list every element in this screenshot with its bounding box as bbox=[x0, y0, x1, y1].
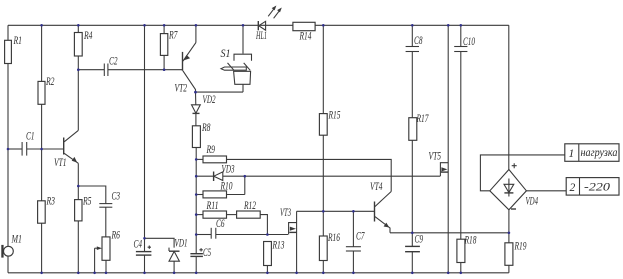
svg-text:C9: C9 bbox=[415, 234, 424, 246]
transistor VT1 bbox=[54, 130, 78, 169]
svg-text:C8: C8 bbox=[414, 35, 423, 47]
svg-text:S1: S1 bbox=[221, 48, 231, 60]
resistor R9 bbox=[196, 144, 226, 163]
node dots bottom rail bbox=[40, 272, 462, 275]
node dots inner bbox=[7, 68, 511, 239]
svg-text:C10: C10 bbox=[463, 36, 475, 48]
svg-text:R4: R4 bbox=[83, 30, 92, 42]
resistor R17 bbox=[409, 113, 430, 140]
svg-text:VD4: VD4 bbox=[526, 196, 539, 208]
capacitor C8 bbox=[406, 25, 423, 117]
capacitor C1 bbox=[22, 131, 34, 156]
wire C6 to VT3 gate bbox=[267, 234, 288, 236]
resistor R7 bbox=[160, 25, 178, 69]
resistor R15 bbox=[319, 25, 340, 211]
svg-text:R12: R12 bbox=[243, 200, 256, 212]
wire left rail bbox=[7, 25, 9, 272]
svg-text:VT2: VT2 bbox=[175, 83, 188, 95]
svg-text:R17: R17 bbox=[416, 113, 429, 125]
svg-text:R14: R14 bbox=[299, 31, 312, 43]
svg-text:C2: C2 bbox=[109, 56, 118, 68]
svg-text:R19: R19 bbox=[514, 241, 527, 253]
terminal box 1 nagruzka bbox=[565, 144, 619, 162]
svg-text:VT1: VT1 bbox=[54, 157, 67, 169]
resistor R14 bbox=[293, 22, 315, 42]
capacitor C5 bbox=[190, 247, 211, 273]
LED HL1 bbox=[255, 6, 281, 43]
capacitor C6 bbox=[196, 218, 267, 239]
svg-text:R1: R1 bbox=[13, 35, 22, 47]
wire R5 bottom bbox=[77, 221, 79, 273]
transistor VT3 bbox=[280, 207, 297, 273]
diode VD1 zener bbox=[145, 238, 188, 273]
terminal box 2 -220 bbox=[566, 178, 619, 196]
resistor R19 bbox=[505, 241, 527, 273]
svg-text:VD1: VD1 bbox=[175, 238, 188, 250]
resistor R1 bbox=[5, 35, 22, 64]
wire long vertical to C4 bbox=[144, 25, 146, 251]
wire C10 R18 branch bbox=[460, 25, 462, 239]
resistor R12 bbox=[237, 200, 268, 235]
svg-text:R7: R7 bbox=[168, 30, 178, 42]
microphone M1 bbox=[1, 234, 22, 258]
resistor R13 bbox=[264, 240, 285, 273]
svg-text:C4: C4 bbox=[134, 239, 143, 251]
transistor VT2 bbox=[175, 25, 196, 94]
svg-text:R8: R8 bbox=[201, 122, 210, 134]
svg-text:R2: R2 bbox=[45, 76, 54, 88]
svg-text:VT4: VT4 bbox=[370, 181, 383, 193]
wire load terminal 1 bbox=[480, 155, 564, 191]
wire VT4 emitter rail bbox=[390, 232, 509, 234]
svg-text:1: 1 bbox=[569, 148, 575, 160]
resistor R5 bbox=[75, 196, 92, 221]
resistor R10 bbox=[196, 181, 245, 198]
wire emitter to C3 bbox=[78, 186, 106, 204]
capacitor C4 bbox=[134, 239, 152, 273]
potentiometer R6 bbox=[95, 230, 121, 273]
wire top right vertical bbox=[508, 25, 510, 169]
wire VD3 R10 link bbox=[244, 176, 246, 194]
svg-text:C3: C3 bbox=[112, 191, 121, 203]
bridge rectifier VD4 bbox=[490, 163, 538, 210]
capacitor C2 bbox=[78, 56, 182, 77]
svg-text:C7: C7 bbox=[356, 231, 365, 243]
switch S1 thermal bbox=[221, 25, 252, 92]
svg-text:HL1: HL1 bbox=[255, 30, 267, 42]
svg-text:VT5: VT5 bbox=[429, 151, 442, 163]
wire divider chain bbox=[195, 148, 197, 254]
svg-text:нагрузка: нагрузка bbox=[581, 147, 618, 159]
svg-text:R18: R18 bbox=[464, 235, 477, 247]
svg-text:-220: -220 bbox=[584, 182, 610, 194]
svg-text:VT3: VT3 bbox=[280, 207, 291, 219]
svg-text:R16: R16 bbox=[327, 232, 340, 244]
svg-text:R11: R11 bbox=[206, 200, 219, 212]
resistor R8 bbox=[192, 122, 210, 148]
wire VT3 drain to VT4 base bbox=[297, 210, 375, 212]
svg-text:R9: R9 bbox=[206, 144, 215, 156]
wire R2 R3 branch bbox=[41, 25, 43, 272]
wire R9 to VT4 collector bbox=[227, 159, 392, 191]
node dots top rail bbox=[40, 24, 462, 27]
wire R17 to C9 bbox=[411, 140, 413, 246]
resistor R3 bbox=[38, 196, 56, 224]
wire VD3 to VT5 gate bbox=[245, 175, 441, 177]
svg-text:VD3: VD3 bbox=[222, 164, 235, 176]
wire bottom rail bbox=[8, 272, 509, 274]
capacitor C9 bbox=[405, 234, 423, 273]
resistor R16 bbox=[319, 211, 340, 272]
svg-text:R15: R15 bbox=[328, 110, 341, 122]
resistor R4 bbox=[74, 25, 92, 69]
wire C3 to R6 bbox=[105, 207, 107, 237]
svg-text:R10: R10 bbox=[220, 181, 233, 193]
wire bridge minus to R19 bbox=[508, 210, 510, 243]
svg-text:2: 2 bbox=[570, 182, 576, 194]
transistor VT4 bbox=[370, 181, 391, 233]
svg-text:C1: C1 bbox=[26, 131, 35, 143]
resistor R11 bbox=[196, 200, 236, 218]
diode VD3 bbox=[196, 164, 245, 182]
wire VT1 collector bbox=[77, 70, 79, 131]
wire VT1 emitter bbox=[77, 163, 79, 201]
svg-text:M1: M1 bbox=[11, 234, 22, 246]
wire top rail bbox=[8, 24, 509, 26]
wire VT2 emitter to S1 bbox=[196, 91, 244, 93]
resistor R18 bbox=[457, 235, 477, 273]
svg-text:VD2: VD2 bbox=[203, 94, 216, 106]
capacitor C7 bbox=[346, 211, 365, 272]
capacitor C3 bbox=[99, 191, 120, 208]
wire mains terminal 2 bbox=[526, 190, 566, 192]
capacitor C10 bbox=[454, 36, 475, 52]
svg-text:C6: C6 bbox=[216, 218, 225, 230]
svg-text:C5: C5 bbox=[203, 247, 211, 259]
diode VD2 bbox=[192, 92, 216, 126]
transistor VT5 bbox=[429, 25, 449, 272]
svg-text:R3: R3 bbox=[46, 196, 55, 208]
svg-text:R13: R13 bbox=[272, 240, 285, 252]
svg-text:R5: R5 bbox=[82, 196, 91, 208]
resistor R2 bbox=[38, 76, 55, 104]
svg-text:R6: R6 bbox=[111, 230, 120, 242]
wire C1 input bbox=[8, 148, 64, 150]
